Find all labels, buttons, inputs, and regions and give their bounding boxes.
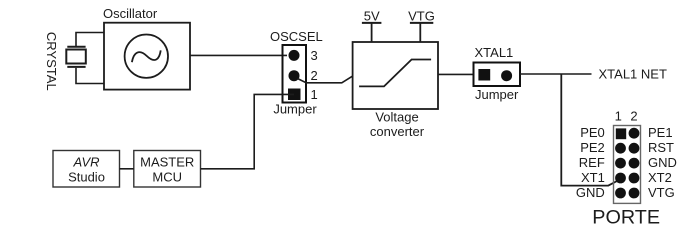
header PORTE outline	[614, 126, 641, 204]
level shift waveform	[359, 60, 431, 87]
wire AVR Studio to MASTER MCU	[120, 168, 134, 170]
svg-text:XTAL1: XTAL1	[475, 45, 514, 60]
box AVR Studio	[53, 151, 120, 188]
wire crystal top	[76, 33, 104, 47]
svg-text:XTAL1 NET: XTAL1 NET	[599, 67, 667, 82]
wire branch to XT1	[561, 74, 619, 186]
svg-text:Jumper: Jumper	[475, 87, 519, 102]
svg-text:2: 2	[630, 108, 637, 123]
svg-text:GND: GND	[648, 155, 677, 170]
svg-text:REF: REF	[579, 155, 605, 170]
svg-text:3: 3	[311, 48, 318, 63]
svg-text:PE1: PE1	[648, 125, 673, 140]
svg-text:1: 1	[615, 108, 622, 123]
svg-text:converter: converter	[370, 124, 425, 139]
header pins circles	[629, 128, 640, 139]
XTAL1 pin circle	[501, 70, 512, 81]
OSCSEL pin 1	[288, 89, 301, 101]
voltage converter box	[353, 42, 438, 109]
svg-text:OSCSEL: OSCSEL	[270, 29, 323, 44]
sine wave	[132, 50, 161, 62]
oscillator symbol circle	[125, 35, 168, 78]
svg-text:CRYSTAL: CRYSTAL	[44, 32, 59, 91]
svg-text:RST: RST	[648, 140, 674, 155]
wire crystal bottom	[76, 68, 104, 84]
svg-text:XT1: XT1	[581, 170, 605, 185]
svg-text:PORTE: PORTE	[592, 207, 660, 229]
svg-text:GND: GND	[576, 185, 605, 200]
OSCSEL pin 2	[289, 70, 300, 81]
svg-text:PE2: PE2	[580, 140, 605, 155]
svg-text:Voltage: Voltage	[375, 110, 418, 125]
svg-text:Studio: Studio	[68, 169, 105, 184]
svg-text:MCU: MCU	[152, 169, 182, 184]
svg-text:VTG: VTG	[648, 185, 675, 200]
svg-text:2: 2	[311, 68, 318, 83]
crystal plates	[67, 47, 85, 67]
wire OSCSEL pin 2 to voltage converter	[298, 76, 353, 83]
svg-text:AVR: AVR	[72, 154, 99, 169]
box MASTER MCU	[134, 151, 201, 188]
wire voltage converter to XTAL1 jumper	[438, 73, 474, 75]
OSCSEL pin 3	[289, 50, 300, 61]
svg-text:Jumper: Jumper	[273, 102, 317, 117]
header pin XT square (row1 col1)	[616, 128, 626, 139]
jumper XTAL1 outline	[474, 63, 521, 87]
svg-text:5V: 5V	[364, 9, 380, 24]
crystal body	[66, 50, 86, 64]
wire XTAL1 jumper to XTAL1 NET	[520, 73, 592, 75]
svg-text:VTG: VTG	[408, 9, 435, 24]
wire MASTER MCU to OSCSEL pin 1	[201, 94, 295, 168]
wire oscillator to OSCSEL pin 3	[190, 54, 287, 56]
svg-text:Oscillator: Oscillator	[103, 6, 158, 21]
XTAL1 pin square	[478, 69, 490, 81]
svg-text:XT2: XT2	[648, 170, 672, 185]
svg-text:MASTER: MASTER	[140, 154, 194, 169]
oscillator box	[104, 23, 190, 90]
svg-text:PE0: PE0	[580, 125, 605, 140]
jumper block OSCSEL outline	[283, 45, 307, 103]
svg-text:1: 1	[311, 87, 318, 102]
